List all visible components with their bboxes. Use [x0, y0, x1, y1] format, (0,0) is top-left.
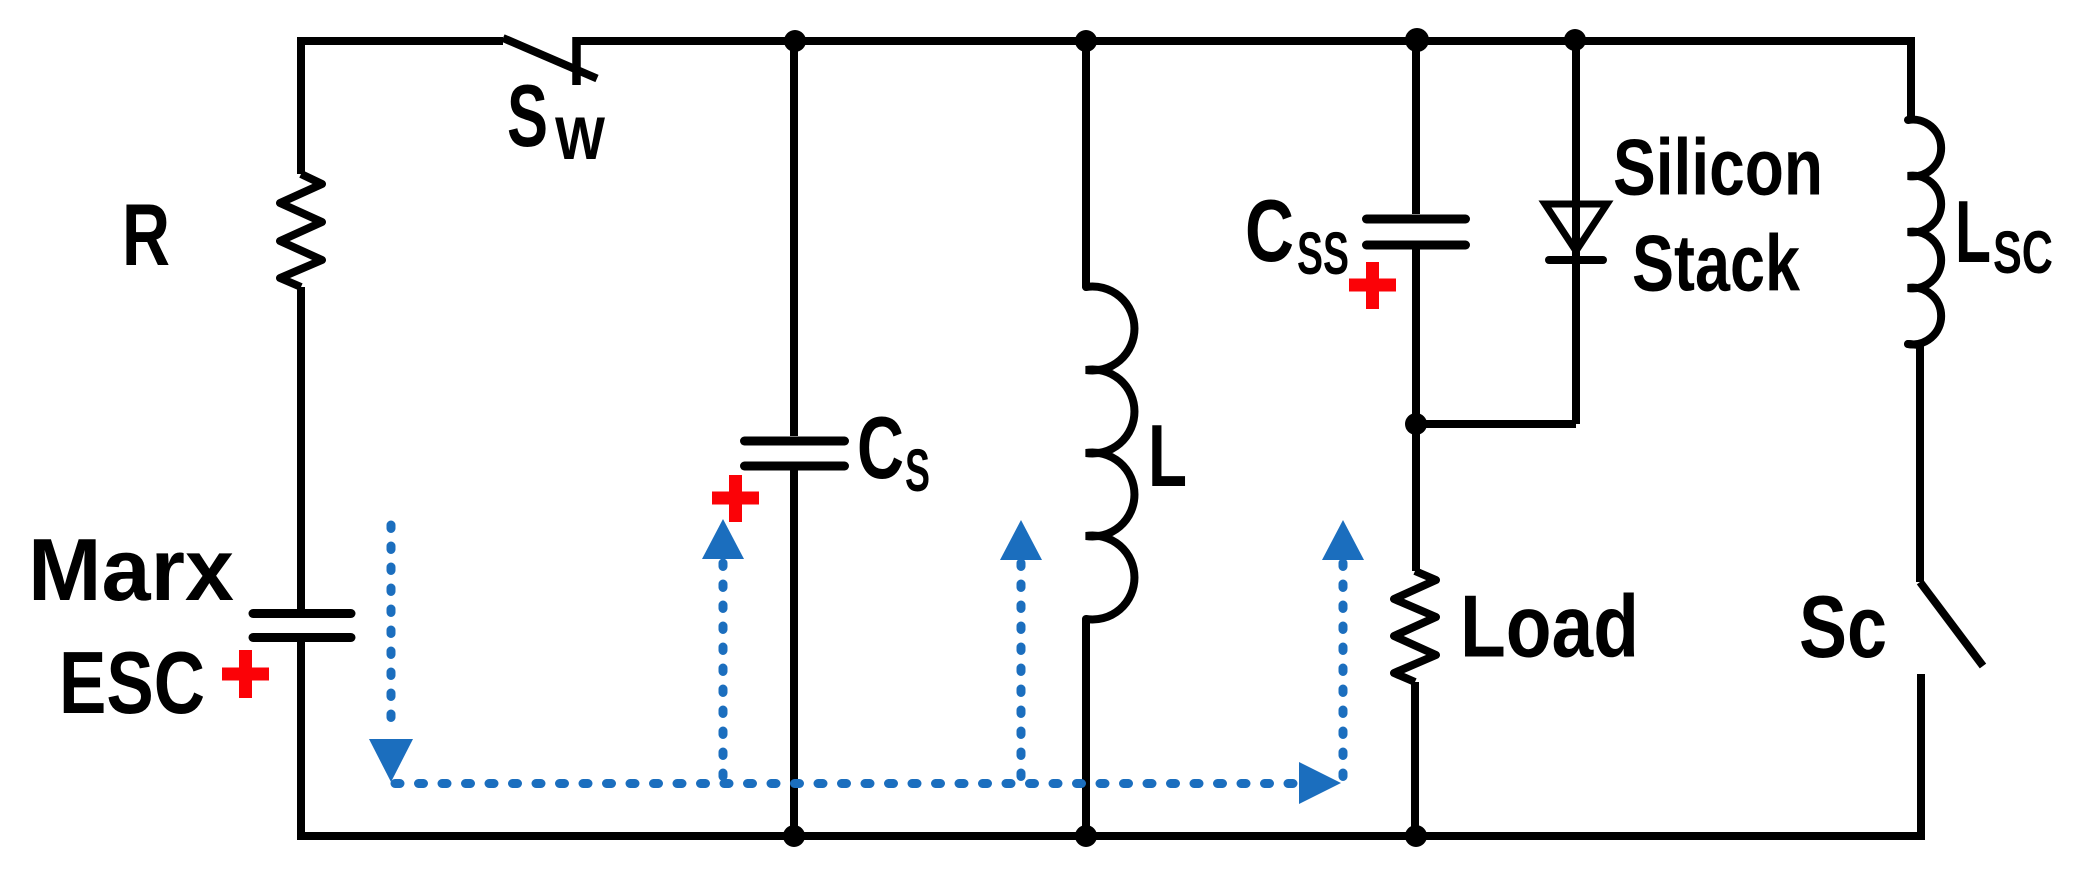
polarity plus of Css [1349, 262, 1396, 309]
polarity plus of Cs [712, 475, 759, 522]
wire: top-right corner down to Lsc [1907, 37, 1915, 120]
wire: Cs branch upper [790, 41, 798, 436]
node at bottom of L branch [1075, 825, 1097, 847]
current path dashed down arrow at Marx [369, 525, 413, 782]
capacitor Marx ESC (bottom plate) [253, 633, 351, 642]
capacitor Cs (bottom plate) [745, 462, 845, 471]
wire: top rail right segment [577, 37, 1911, 45]
wire: Load branch lower [1411, 682, 1419, 836]
node at bottom of Cs branch [783, 825, 805, 847]
capacitor Cs (top plate) [745, 437, 845, 446]
inductor L [1086, 287, 1134, 620]
current path dashed up arrow at Load [1322, 520, 1364, 778]
wire: L branch upper [1082, 41, 1090, 287]
wire: bottom rail [297, 832, 1921, 840]
switch SW blade [503, 38, 597, 79]
svg-text:Load: Load [1460, 577, 1639, 676]
svg-text:Stack: Stack [1632, 219, 1800, 308]
wire: Css branch middle down to Load [1412, 249, 1420, 571]
node at top of diode branch [1564, 29, 1586, 51]
node between Css and Load [1405, 413, 1427, 435]
node at top of L branch [1075, 30, 1097, 52]
current path right arrowhead [1299, 762, 1341, 804]
resistor R [280, 174, 322, 287]
node at top of Css branch [1405, 28, 1429, 52]
svg-text:S: S [507, 66, 548, 165]
svg-text:Silicon: Silicon [1613, 123, 1823, 212]
inductor Lsc [1908, 120, 1941, 345]
svg-text:SC: SC [1993, 219, 2053, 286]
diode Silicon Stack cathode bar [1549, 256, 1603, 264]
svg-text:R: R [122, 185, 170, 284]
capacitor Css (top plate) [1367, 215, 1466, 224]
wire: left rail between R and Marx capacitor [297, 287, 305, 609]
capacitor Marx ESC (top plate) [253, 609, 351, 618]
svg-text:S: S [905, 437, 930, 504]
svg-text:ESC: ESC [59, 633, 205, 732]
svg-text:SS: SS [1297, 220, 1349, 287]
wire: right rail between Lsc and Sc [1916, 344, 1924, 582]
current path dashed up arrow at L [1000, 520, 1042, 783]
current path dashed up arrow at Cs [702, 519, 744, 783]
wire: top-left corner and top rail left segment [301, 41, 503, 174]
wire: right rail below Sc [1917, 674, 1925, 840]
current path dashed horizontal line [395, 779, 1298, 788]
wire: L branch lower [1082, 619, 1090, 836]
node at bottom of Load branch [1405, 825, 1427, 847]
svg-text:L: L [1148, 406, 1187, 505]
wire: Cs branch lower [790, 470, 798, 836]
node at top of Cs branch [784, 30, 806, 52]
svg-text:C: C [1245, 181, 1294, 280]
wire: connector from node to diode branch [1416, 420, 1576, 428]
switch SW fixed stub [572, 37, 581, 85]
diode Silicon Stack triangle [1545, 204, 1607, 251]
wire: left rail below Marx capacitor [297, 641, 305, 840]
resistor Load [1394, 571, 1436, 682]
polarity plus of Marx ESC [222, 650, 269, 698]
svg-text:C: C [857, 398, 904, 497]
svg-text:L: L [1955, 182, 1991, 281]
capacitor Css (bottom plate) [1367, 241, 1466, 250]
svg-text:Marx: Marx [28, 520, 234, 619]
wire: diode branch vertical [1572, 41, 1580, 424]
svg-text:Sc: Sc [1799, 577, 1887, 676]
svg-text:W: W [555, 105, 605, 172]
switch Sc blade [1920, 582, 1983, 666]
wire: Css branch upper [1412, 41, 1420, 214]
wire: joint from Lsc to right rail [1908, 344, 1920, 345]
